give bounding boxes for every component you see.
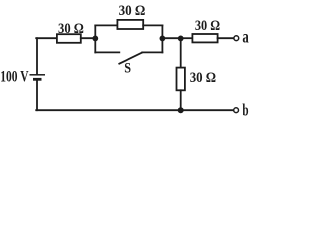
terminal b circle xyxy=(234,108,239,113)
wire bottom rail xyxy=(36,109,233,111)
resistor R2 30Ω (top branch) xyxy=(117,20,143,29)
wire top branch right riser xyxy=(161,25,163,38)
node R junction dot xyxy=(160,36,166,42)
resistor R4 30Ω (to terminal a) xyxy=(192,34,217,42)
svg-text:30 Ω: 30 Ω xyxy=(58,21,84,37)
wire switch branch right riser xyxy=(161,38,163,52)
svg-text:S: S xyxy=(124,61,131,77)
wire node R to node M xyxy=(162,37,180,39)
wire node M to R4 xyxy=(181,37,193,39)
bottom junction dot xyxy=(178,107,184,113)
wire switch branch left drop xyxy=(94,38,96,52)
wire main line from left rail to R1 xyxy=(36,37,57,39)
terminal a circle xyxy=(234,36,239,41)
wire top branch left segment xyxy=(95,24,117,26)
wire vertical branch upper (node M to R3) xyxy=(180,38,182,67)
wire left rail bottom (battery - to bottom rail) xyxy=(36,80,38,111)
node M junction dot xyxy=(178,36,184,42)
wire vertical branch lower (R3 to bottom rail) xyxy=(180,90,182,110)
resistor R1 30Ω (top left) xyxy=(57,34,81,43)
resistor R3 30Ω (vertical) xyxy=(177,68,185,91)
svg-text:100 V: 100 V xyxy=(0,69,29,86)
svg-text:b: b xyxy=(242,101,248,120)
wire R1 to node L xyxy=(81,37,96,39)
battery 100 V long plate (+) xyxy=(30,74,46,76)
wire switch left lead xyxy=(95,51,119,53)
svg-text:a: a xyxy=(242,27,248,47)
svg-text:30 Ω: 30 Ω xyxy=(195,18,220,34)
wire switch right lead xyxy=(142,51,162,53)
wire top branch right segment xyxy=(143,24,162,26)
node L junction dot xyxy=(92,36,98,42)
wire left rail top (battery + to main line) xyxy=(36,38,38,74)
svg-text:30 Ω: 30 Ω xyxy=(190,70,216,86)
switch S blade (open) xyxy=(119,53,142,64)
wire R4 to terminal a xyxy=(218,37,234,39)
wire top branch left riser xyxy=(94,25,96,38)
battery 100 V short plate (-) xyxy=(33,78,42,81)
svg-text:30 Ω: 30 Ω xyxy=(119,3,146,19)
